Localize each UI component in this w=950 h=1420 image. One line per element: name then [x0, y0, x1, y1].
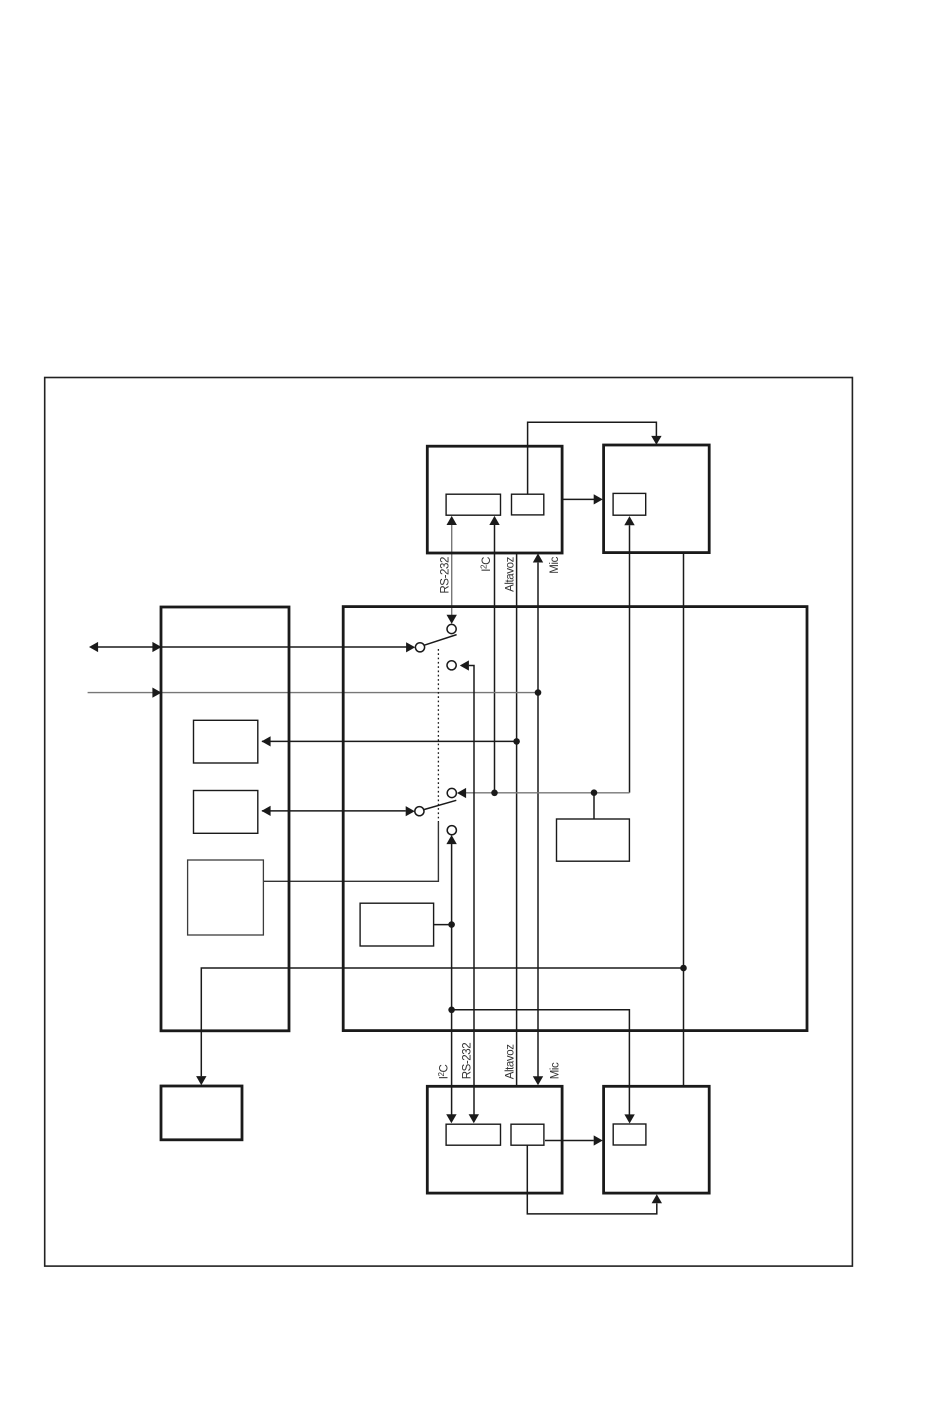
svg-text:RS-232: RS-232: [462, 1043, 474, 1080]
arrowhead: into box L1: [262, 736, 271, 746]
switch 2 common contact: [415, 807, 424, 816]
wire: external gray line to Mic junction: [88, 692, 538, 694]
wire: switch coupling dashed link: [437, 649, 439, 822]
wire: box L2 to switch 2 common: [262, 810, 406, 812]
box BL: small bottom-left box: [161, 1086, 242, 1140]
block: box L1: [194, 720, 258, 763]
block: box L2: [194, 791, 258, 834]
block: box A2 inner register 1: [446, 1124, 500, 1145]
wire: box B bottom branch to bottom-left box: [201, 968, 683, 1076]
svg-text:Altavoz: Altavoz: [504, 1044, 516, 1080]
arrowhead: external line left tip: [89, 642, 98, 652]
arrowhead: external line into box L: [152, 642, 161, 652]
box B: top-right thick unit: [604, 445, 710, 553]
switch 2 lower throw contact: [447, 826, 456, 835]
wire: switch 2 blade: [424, 800, 457, 809]
arrowhead: box A to box B: [594, 494, 603, 504]
wire: stub from box M2 up to gray line: [593, 793, 595, 819]
arrowhead: up into switch 2 lower throw: [446, 835, 456, 844]
svg-text:Mic: Mic: [549, 556, 561, 573]
block: box A inner register 2: [512, 494, 544, 515]
block: box B2 inner register: [613, 1124, 646, 1145]
wire: external bidirectional line to switch 1 common: [98, 646, 407, 648]
box A: top-left thick unit: [427, 446, 562, 553]
wire: box A2 inner block to box B2: [545, 1140, 594, 1142]
arrowhead: I2C up into box A register: [489, 516, 499, 525]
arrowhead: external gray line into box L: [152, 688, 161, 698]
box B2: bottom-right thick unit: [604, 1086, 710, 1193]
switch 1 common contact: [415, 643, 424, 652]
junction dot: I2C line / B2 branch: [448, 1007, 455, 1014]
box M: large middle unit: [343, 607, 807, 1031]
switch 1 top throw contact: [447, 624, 456, 633]
junction dot: I2C / gray audio line: [491, 790, 498, 797]
switch 1 lower throw contact: [447, 661, 456, 670]
wire I2C: box A down to gray audio bus junction: [494, 525, 496, 793]
wire: switch 1 lower throw down to box A2: [469, 666, 474, 1115]
block: box M1: [360, 903, 434, 946]
arrowhead: up into box B2 bottom: [652, 1194, 662, 1203]
arrowhead: RS-232 up into box A register: [447, 516, 457, 525]
wire: switch 1 blade: [424, 635, 456, 646]
box L: tall left unit: [161, 607, 289, 1031]
arrowhead: I2C down into box A2 register: [446, 1114, 456, 1123]
block: box M2: [557, 819, 630, 861]
wire: top loop from box A inner block to box B top: [528, 422, 657, 494]
wire: I2C branch to box B2 inner block: [452, 1010, 630, 1115]
junction dot: M2 stub / gray line: [591, 789, 598, 796]
wire: box A right edge to box B left edge: [562, 498, 594, 500]
wire: switch 2 lower throw down to box A2 (I2C): [451, 844, 453, 1115]
junction dot: external gray line / Mic line: [535, 689, 542, 696]
wire Mic: box A bottom to box A2 top: [537, 563, 539, 1077]
arrowhead: Mic down into box A2 top: [533, 1076, 543, 1085]
box A2: bottom-left thick unit: [427, 1086, 562, 1193]
block: box B inner register: [613, 493, 646, 515]
svg-text:I2C: I2C: [480, 557, 493, 572]
outer frame: [45, 378, 853, 1267]
wire Altavoz: box A bottom to box A2 top: [516, 553, 518, 1085]
arrowhead: into switch 1 common: [406, 642, 415, 652]
arrowhead: box A2 to box B2: [594, 1135, 603, 1145]
wire: Altavoz branch to box L1: [262, 740, 517, 742]
wire: box B inner block down to gray line corner: [629, 525, 631, 792]
arrowhead: into box B top: [651, 436, 661, 445]
wire RS-232 (gray) box A to switch 1: [451, 525, 453, 616]
junction dot: M1 stub / I2C line: [448, 921, 455, 928]
arrowhead: Mic up into box A bottom: [533, 553, 543, 562]
wire: box B bottom down to box B2 top: [683, 553, 685, 1085]
svg-text:Altavoz: Altavoz: [504, 556, 516, 592]
arrowhead: up into box B inner register: [624, 516, 634, 525]
svg-text:I2C: I2C: [437, 1064, 450, 1079]
arrowhead: RS-232 down into switch 1 top throw: [447, 615, 457, 624]
switch 2 upper throw contact: [447, 788, 456, 797]
arrowhead: down into box B2 inner register: [624, 1114, 634, 1123]
arrowhead: into box L2: [262, 806, 271, 816]
wire: bottom loop from box A2 inner block to box B2 bottom: [527, 1145, 657, 1214]
arrowhead: RS-232 down into box A2 register: [469, 1114, 479, 1123]
block: box A inner register 1: [446, 494, 500, 515]
arrowhead: into switch 2 common: [406, 806, 415, 816]
wire: switch control from box L3: [263, 822, 438, 881]
junction dot: B branch / bottom-left branch: [680, 965, 687, 972]
arrowhead: down into bottom-left box: [196, 1076, 206, 1085]
arrowhead: gray line into switch 2 upper throw: [457, 788, 466, 798]
block: box L3: [188, 860, 264, 935]
arrowhead: into switch 1 lower throw: [460, 660, 469, 670]
block: box A2 inner register 2: [511, 1124, 544, 1145]
wire (gray) horizontal to switch 2 upper throw: [466, 792, 630, 794]
svg-text:RS-232: RS-232: [439, 557, 451, 594]
wire: stub from box M1 to I2C line: [434, 924, 452, 926]
svg-text:Mic: Mic: [550, 1062, 562, 1079]
junction dot: Altavoz line / L1 branch: [513, 738, 520, 745]
